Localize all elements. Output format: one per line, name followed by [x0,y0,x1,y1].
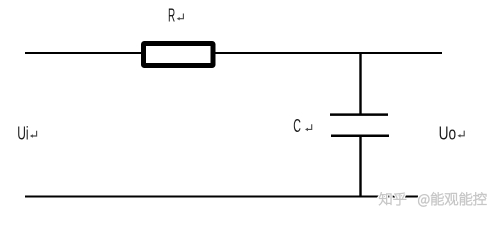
svg-text:Uo: Uo [439,123,457,144]
wire bottom (ground return) [25,196,418,198]
return mark after C [305,124,312,131]
watermark 知乎 @能观能控 [379,192,486,206]
capacitor C bottom plate [331,134,389,137]
wire capacitor branch lower [359,136,361,198]
wire top (input to output node) [25,52,442,54]
capacitor C top plate [330,113,388,116]
svg-text:R: R [168,4,175,25]
svg-text:Ui: Ui [17,123,28,144]
svg-text:C: C [293,115,301,136]
return mark after Ui [30,131,37,138]
return mark after Uo [458,131,465,138]
resistor R [144,44,214,66]
return mark after R [177,14,184,21]
wire capacitor branch upper [359,52,361,116]
